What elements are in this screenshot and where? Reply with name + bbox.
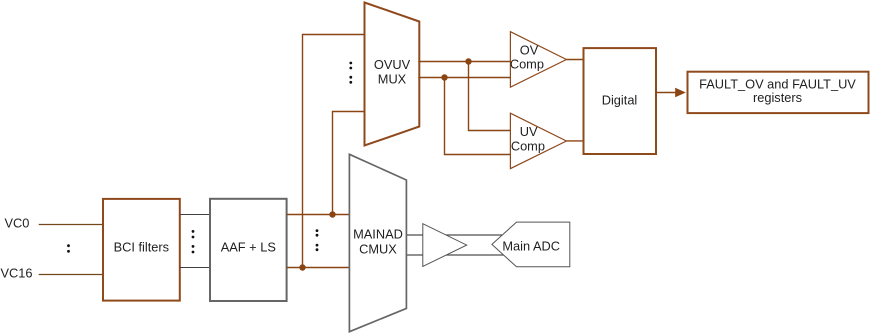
wire AAF to CMUX bottom [287, 267, 351, 269]
wire CMUX to Main ADC bottom (differential pair) [407, 254, 508, 256]
svg-text:OVUV: OVUV [374, 57, 411, 72]
wire UV Comp to Digital [566, 140, 584, 142]
svg-text:CMUX: CMUX [359, 241, 397, 256]
ellipsis dots between VC0 and VC16 [67, 244, 70, 252]
ellipsis dots left of OVUV MUX [349, 62, 352, 84]
wire branch down to UV Comp upper input [469, 62, 511, 131]
mux OVUV MUX [365, 3, 420, 146]
wire branch up to OVUV MUX top input [303, 35, 366, 268]
buffer amplifier triangle [423, 224, 467, 267]
wire VC16 to BCI filters [39, 274, 103, 276]
block Main ADC (pentagon) [492, 222, 570, 267]
wire VC0 to BCI filters [39, 224, 103, 226]
comparator UV Comp [510, 113, 566, 168]
block BCI filters [103, 199, 180, 301]
ellipsis dots between BCI and AAF [192, 230, 195, 253]
svg-text:VC16: VC16 [1, 266, 33, 281]
svg-text:registers: registers [753, 90, 802, 105]
svg-text:Main ADC: Main ADC [502, 238, 560, 253]
wire Digital to FAULT registers (arrow) [656, 88, 686, 98]
wire OVUV MUX top output to OV Comp [418, 61, 510, 63]
svg-text:OV: OV [520, 42, 539, 57]
wire BCI to AAF bottom [180, 267, 210, 269]
wire branch down to UV Comp lower input [445, 78, 511, 155]
junction dot at branch of bottom line [299, 264, 305, 270]
svg-text:Comp: Comp [510, 56, 544, 71]
mux MAINAD CMUX [349, 154, 406, 331]
block FAULT_OV and FAULT_UV registers [688, 72, 869, 113]
svg-text:Comp: Comp [511, 138, 545, 153]
svg-text:MAINAD: MAINAD [353, 227, 403, 242]
comparator OV Comp [510, 32, 567, 87]
junction dot on top output [465, 58, 471, 64]
wire OV Comp to Digital [566, 59, 584, 61]
ellipsis dots left of MAINAD CMUX [316, 229, 319, 251]
svg-text:Digital: Digital [602, 92, 638, 107]
svg-text:VC0: VC0 [5, 216, 30, 231]
svg-text:BCI filters: BCI filters [114, 240, 169, 255]
block Digital [584, 48, 657, 154]
svg-text:AAF + LS: AAF + LS [221, 240, 276, 255]
wire CMUX to Main ADC top (differential pair) [407, 234, 508, 236]
block AAF + LS [210, 199, 287, 301]
svg-text:UV: UV [520, 124, 538, 139]
wire OVUV MUX bottom output to OV Comp [418, 77, 510, 79]
svg-text:MUX: MUX [378, 71, 407, 86]
junction dot at branch of top line [329, 211, 335, 217]
junction dot on bottom output [441, 74, 447, 80]
wire BCI to AAF top [180, 214, 210, 216]
wire branch up to OVUV MUX bottom input [333, 112, 366, 215]
wire AAF to CMUX top [287, 214, 351, 216]
